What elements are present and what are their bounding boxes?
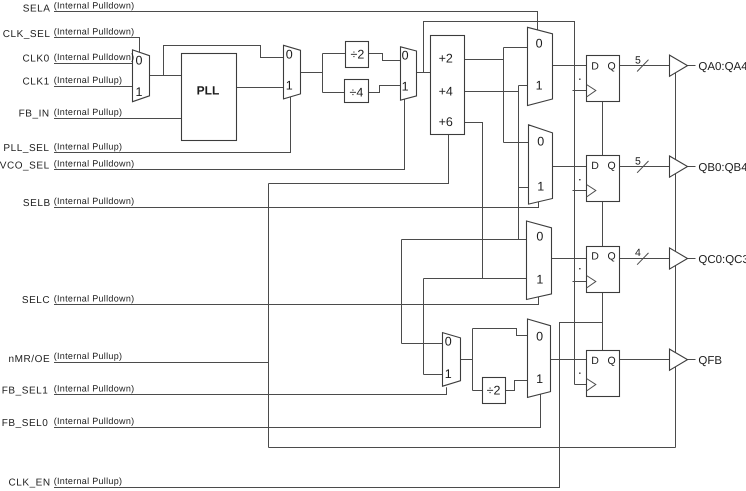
svg-text:0: 0: [536, 37, 543, 51]
svg-text:1: 1: [536, 372, 543, 386]
svg-text:(Internal Pulldown): (Internal Pulldown): [54, 294, 135, 304]
svg-text:(Internal Pullup): (Internal Pullup): [54, 141, 123, 151]
svg-text:Q: Q: [608, 250, 616, 262]
svg-text:PLL_SEL: PLL_SEL: [3, 143, 49, 154]
svg-text:5: 5: [635, 54, 641, 66]
svg-text:1: 1: [286, 78, 293, 92]
svg-text:1: 1: [536, 272, 543, 286]
svg-text:0: 0: [402, 48, 409, 62]
svg-text:(Internal Pulldown): (Internal Pulldown): [54, 0, 135, 10]
svg-text:0: 0: [537, 135, 544, 149]
svg-text:÷2: ÷2: [487, 383, 501, 397]
svg-text:1: 1: [445, 367, 452, 381]
svg-text:SELA: SELA: [23, 3, 51, 14]
svg-text:(Internal Pullup): (Internal Pullup): [54, 75, 123, 85]
svg-text:1: 1: [536, 79, 543, 93]
svg-text:Q: Q: [608, 160, 616, 172]
svg-text:(Internal Pullup): (Internal Pullup): [54, 351, 123, 361]
svg-text:(Internal Pulldown): (Internal Pulldown): [54, 159, 135, 169]
svg-text:1: 1: [537, 179, 544, 193]
svg-text:VCO_SEL: VCO_SEL: [0, 160, 50, 171]
svg-text:Q: Q: [608, 60, 616, 72]
svg-text:QB0:QB4: QB0:QB4: [698, 162, 746, 174]
svg-text:(Internal Pullup): (Internal Pullup): [54, 107, 123, 117]
svg-text:QFB: QFB: [698, 355, 722, 367]
svg-text:SELC: SELC: [22, 295, 50, 306]
svg-text:D: D: [591, 355, 599, 367]
svg-text:FB_IN: FB_IN: [19, 109, 50, 120]
svg-text:5: 5: [635, 156, 641, 168]
svg-text:D: D: [591, 60, 599, 72]
svg-text:÷2: ÷2: [350, 47, 364, 61]
svg-text:0: 0: [536, 329, 543, 343]
svg-text:(Internal Pulldown): (Internal Pulldown): [54, 196, 135, 206]
svg-text:(Internal Pulldown): (Internal Pulldown): [54, 52, 135, 62]
svg-text:CLK_SEL: CLK_SEL: [3, 29, 51, 40]
svg-text:FB_SEL1: FB_SEL1: [2, 386, 49, 397]
svg-text:+2: +2: [439, 52, 453, 66]
svg-text:nMR/OE: nMR/OE: [9, 354, 51, 365]
svg-text:0: 0: [286, 48, 293, 62]
svg-text:+4: +4: [439, 85, 453, 99]
svg-text:1: 1: [402, 79, 409, 93]
svg-text:CLK_EN: CLK_EN: [8, 478, 50, 489]
svg-text:CLK0: CLK0: [22, 54, 49, 65]
svg-text:D: D: [591, 250, 599, 262]
svg-text:CLK1: CLK1: [22, 76, 49, 87]
svg-text:(Internal Pulldown): (Internal Pulldown): [54, 384, 135, 394]
svg-text:QA0:QA4: QA0:QA4: [698, 61, 746, 73]
svg-text:(Internal Pulldown): (Internal Pulldown): [54, 416, 135, 426]
svg-text:0: 0: [536, 230, 543, 244]
svg-text:Q: Q: [608, 355, 616, 367]
svg-text:QC0:QC3: QC0:QC3: [698, 254, 746, 266]
svg-text:1: 1: [136, 85, 143, 99]
svg-text:(Internal Pulldown): (Internal Pulldown): [54, 26, 135, 36]
svg-text:FB_SEL0: FB_SEL0: [2, 418, 49, 429]
svg-text:SELB: SELB: [23, 198, 51, 209]
svg-text:D: D: [591, 160, 599, 172]
svg-text:0: 0: [136, 54, 143, 68]
svg-text:4: 4: [635, 247, 641, 259]
svg-text:+6: +6: [439, 115, 453, 129]
svg-text:(Internal Pullup): (Internal Pullup): [54, 476, 123, 486]
svg-text:÷4: ÷4: [349, 85, 363, 99]
svg-text:0: 0: [445, 335, 452, 349]
svg-text:PLL: PLL: [197, 83, 220, 97]
